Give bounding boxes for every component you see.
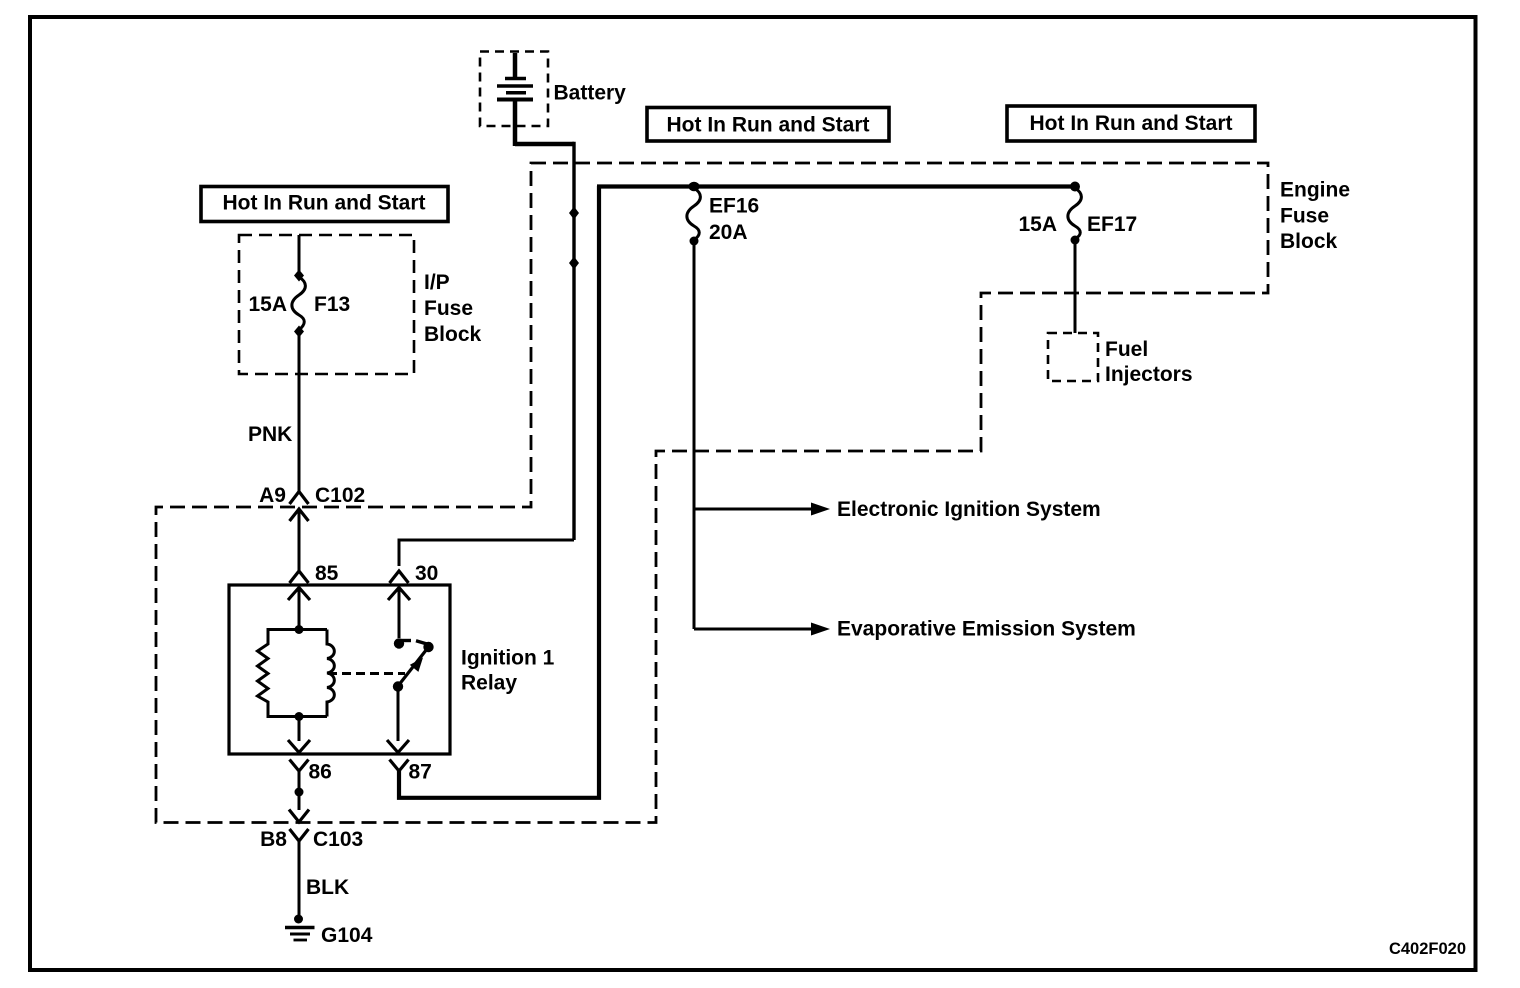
pin 30 internal terminal arrow <box>388 588 410 639</box>
svg-text:EF17: EF17 <box>1087 213 1137 236</box>
junction node at EF16 <box>689 182 700 192</box>
connector C103 (body side) <box>290 829 309 917</box>
branch to Evaporative Emission System <box>694 623 830 636</box>
pin 30 connector chevron <box>390 571 409 583</box>
svg-text:Fuse: Fuse <box>1280 205 1329 228</box>
pin 86 internal terminal arrow <box>288 716 310 753</box>
pin 87 external connector chevron <box>390 760 409 772</box>
svg-text:G104: G104 <box>321 924 373 947</box>
splice junction on pin 86 wire <box>295 788 304 797</box>
pin 87 internal terminal arrow <box>387 686 409 753</box>
relay switch fixed contact tick <box>399 639 411 642</box>
pin 86 external connector chevron <box>290 760 309 772</box>
svg-text:B8: B8 <box>260 828 287 851</box>
svg-text:Ignition 1: Ignition 1 <box>461 647 555 670</box>
svg-text:Injectors: Injectors <box>1105 363 1193 386</box>
label Engine Fuse Block <box>1280 179 1350 254</box>
fuel injectors dashed box <box>1048 333 1098 381</box>
engine fuse block main feed bus <box>597 184 1075 188</box>
battery B+ dashed enclosure <box>480 52 548 127</box>
wire EF17 to fuel injectors <box>1074 242 1077 333</box>
svg-text:Relay: Relay <box>461 672 517 695</box>
wire fuse block top to fuse F13 <box>298 235 301 272</box>
ground G104 <box>285 928 315 941</box>
battery symbol <box>497 53 533 146</box>
relay switch fixed contact (pin 30) <box>394 638 404 648</box>
svg-text:20A: 20A <box>709 221 748 244</box>
relay switch arm arrowhead <box>410 658 423 672</box>
svg-text:I/P: I/P <box>424 271 450 294</box>
fuse EF16 <box>687 188 701 246</box>
relay coil bottom node <box>295 712 304 721</box>
pin 85 connector chevron <box>290 571 309 583</box>
header box Hot In Run and Start (EF17) <box>1007 106 1255 141</box>
relay switch movable contact <box>423 642 433 652</box>
label Fuel Injectors <box>1105 338 1193 386</box>
junction diamond on battery feed (upper) <box>569 207 579 220</box>
svg-text:85: 85 <box>315 562 339 585</box>
junction node at EF17 <box>1070 182 1080 192</box>
svg-text:C103: C103 <box>313 828 363 851</box>
relay K1 Ignition 1 Relay outline <box>229 585 450 754</box>
svg-text:30: 30 <box>415 562 438 585</box>
connector C103 arrow (harness side) <box>289 810 309 823</box>
relay switch common node (pin 87) <box>393 681 403 691</box>
wire EF16 output <box>693 243 696 629</box>
svg-text:86: 86 <box>309 761 332 784</box>
label Ignition 1 Relay <box>461 647 555 695</box>
svg-text:Block: Block <box>424 323 482 346</box>
junction diamond on battery feed (lower) <box>569 257 579 270</box>
header box Hot In Run and Start (I/P fuse block) <box>201 187 448 222</box>
svg-text:Fuse: Fuse <box>424 297 473 320</box>
wire pin 86 to connector C103 <box>298 771 301 810</box>
svg-text:Evaporative Emission System: Evaporative Emission System <box>837 618 1136 641</box>
svg-text:Hot In Run and Start: Hot In Run and Start <box>1030 112 1233 135</box>
wire PNK from F13 to C102 <box>298 334 301 491</box>
ground splice node <box>294 915 303 924</box>
svg-text:87: 87 <box>409 761 432 784</box>
svg-text:C402F020: C402F020 <box>1389 940 1466 958</box>
svg-text:BLK: BLK <box>306 876 349 899</box>
relay coil top node <box>295 625 304 634</box>
svg-text:Engine: Engine <box>1280 179 1350 202</box>
pin 85 internal terminal arrow <box>288 588 310 630</box>
wire pin 87 to engine fuse feed riser <box>399 186 599 798</box>
svg-text:C102: C102 <box>315 484 365 507</box>
svg-text:F13: F13 <box>314 293 350 316</box>
label I/P Fuse Block <box>424 271 482 346</box>
svg-text:Electronic Ignition System: Electronic Ignition System <box>837 498 1101 521</box>
branch to Electronic Ignition System <box>694 503 830 516</box>
header box Hot In Run and Start (EF16) <box>647 108 889 142</box>
svg-text:Block: Block <box>1280 230 1338 253</box>
svg-text:15A: 15A <box>248 293 287 316</box>
svg-text:PNK: PNK <box>248 423 292 446</box>
relay coil with parallel resistor <box>258 630 335 717</box>
fuse EF17 <box>1068 188 1082 245</box>
svg-text:15A: 15A <box>1018 213 1057 236</box>
I/P fuse block dashed outline <box>239 235 414 374</box>
coil-to-switch actuation dashed link <box>328 672 405 675</box>
svg-text:Battery: Battery <box>554 82 627 105</box>
connector C102 (male half) and wire to pin 85 <box>290 509 309 571</box>
svg-text:Fuel: Fuel <box>1105 338 1148 361</box>
wire battery feed to relay pin 30 <box>399 142 574 566</box>
relay switch gap tick <box>416 641 427 644</box>
svg-text:A9: A9 <box>259 484 286 507</box>
svg-text:Hot In Run and Start: Hot In Run and Start <box>223 192 426 215</box>
connector C102 (female half) <box>290 492 309 505</box>
fuse F13 <box>292 270 306 338</box>
svg-text:EF16: EF16 <box>709 195 759 218</box>
relay switch arm <box>398 647 429 686</box>
svg-text:Hot In Run and Start: Hot In Run and Start <box>667 114 870 137</box>
engine fuse block dashed outline <box>156 163 1268 823</box>
